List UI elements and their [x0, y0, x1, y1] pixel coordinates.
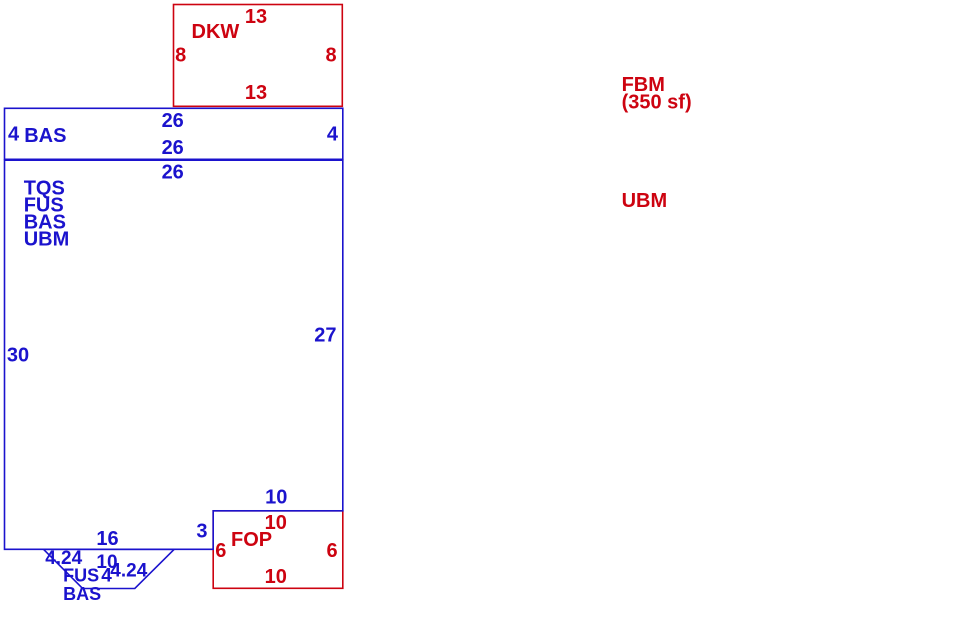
- svg-text:10: 10: [265, 487, 287, 509]
- svg-text:4: 4: [327, 124, 339, 146]
- main area outline (TQS/FUS/BAS/UBM): [5, 160, 343, 549]
- svg-text:(350 sf): (350 sf): [622, 92, 692, 114]
- svg-text:DKW: DKW: [192, 21, 240, 43]
- svg-text:26: 26: [162, 110, 184, 132]
- svg-text:UBM: UBM: [622, 190, 668, 212]
- svg-text:26: 26: [162, 137, 184, 159]
- svg-text:27: 27: [314, 325, 336, 347]
- svg-text:30: 30: [7, 345, 29, 367]
- svg-text:BAS: BAS: [24, 125, 66, 147]
- BAS area outline: [5, 108, 343, 159]
- svg-text:4.24: 4.24: [110, 561, 147, 582]
- FOP porch outline: [213, 511, 343, 589]
- DKW deck outline: [174, 5, 343, 107]
- svg-text:10: 10: [265, 566, 287, 588]
- svg-text:UBM: UBM: [24, 229, 70, 251]
- svg-text:FOP: FOP: [231, 529, 272, 551]
- svg-text:8: 8: [175, 44, 186, 66]
- svg-text:6: 6: [326, 540, 337, 562]
- svg-text:26: 26: [162, 162, 184, 184]
- FUS/BAS trapezoid outline: [44, 549, 175, 588]
- svg-text:13: 13: [245, 6, 267, 28]
- svg-text:3: 3: [196, 521, 207, 543]
- svg-text:6: 6: [215, 540, 226, 562]
- svg-text:FUS: FUS: [63, 565, 99, 585]
- svg-text:BAS: BAS: [63, 584, 101, 604]
- svg-text:4: 4: [101, 566, 112, 587]
- svg-text:4: 4: [8, 124, 20, 146]
- svg-text:16: 16: [96, 528, 118, 550]
- svg-text:8: 8: [325, 44, 336, 66]
- svg-text:13: 13: [245, 82, 267, 104]
